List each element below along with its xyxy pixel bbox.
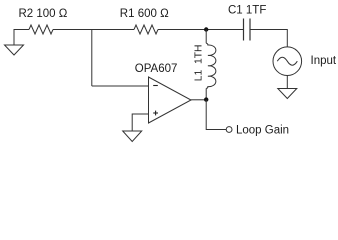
svg-text:R1 600 Ω: R1 600 Ω — [120, 8, 169, 20]
wire output to loop-gain terminal — [206, 100, 226, 130]
node Loop Gain terminal — [226, 127, 232, 133]
capacitor C1 — [244, 19, 251, 41]
node feedback tee — [91, 30, 93, 87]
node output junction dot — [204, 97, 208, 101]
resistor R2 — [29, 25, 53, 34]
source V Input — [273, 47, 302, 76]
svg-text:R2 100 Ω: R2 100 Ω — [19, 8, 68, 20]
wire noninverting input to ground — [132, 114, 148, 131]
wire from left ground to R2 — [14, 29, 30, 31]
op-amp U1 OPA607 — [149, 77, 192, 123]
wire R2 to R1 — [53, 29, 134, 31]
wire C1 to source — [250, 30, 287, 47]
wire op-amp output — [191, 99, 206, 101]
op-amp minus sign — [153, 85, 158, 87]
wire R1 to C1 — [158, 29, 244, 31]
ground (under Input source) — [278, 89, 297, 99]
resistor R1 — [134, 25, 158, 34]
svg-text:Input: Input — [311, 55, 337, 67]
op-amp plus sign — [153, 111, 158, 116]
svg-text:C1 1TF: C1 1TF — [228, 5, 266, 17]
inductor L1 — [206, 30, 216, 100]
svg-text:L1 1TH: L1 1TH — [194, 45, 205, 82]
node junction dot top of L1 — [204, 27, 208, 31]
ground (under op-amp +) — [123, 131, 142, 142]
ground (left, under R2) — [5, 30, 24, 56]
svg-text:Loop Gain: Loop Gain — [236, 125, 289, 137]
wire source to ground — [286, 76, 288, 89]
svg-text:OPA607: OPA607 — [135, 63, 178, 75]
wire feedback to inverting input — [92, 85, 149, 87]
